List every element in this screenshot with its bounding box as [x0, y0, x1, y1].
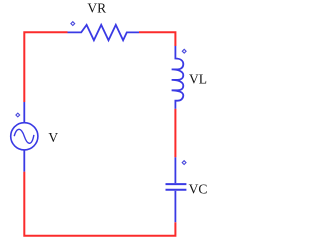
svg-text:VR: VR	[87, 1, 106, 16]
svg-text:V: V	[48, 130, 58, 145]
svg-text:VC: VC	[189, 182, 208, 197]
svg-text:VL: VL	[189, 72, 207, 87]
